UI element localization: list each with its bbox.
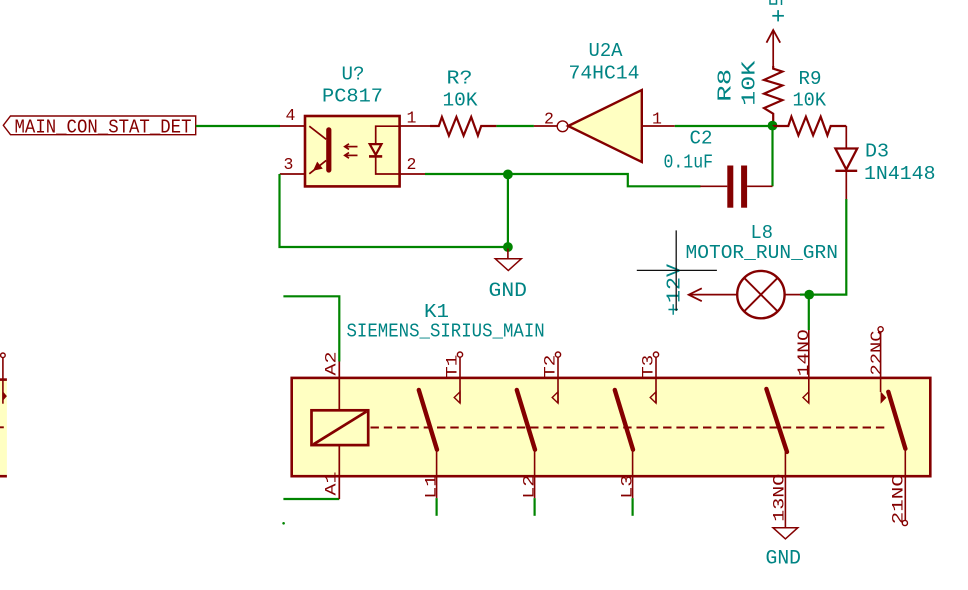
svg-text:1: 1 xyxy=(652,109,662,128)
svg-text:L2: L2 xyxy=(520,475,538,499)
svg-text:R9: R9 xyxy=(799,68,822,90)
K1 pin L1 xyxy=(422,450,440,499)
svg-text:0.1uF: 0.1uF xyxy=(664,151,714,173)
power symbol +12V arrow xyxy=(663,264,702,316)
svg-text:21NC: 21NC xyxy=(890,474,908,524)
stray wire dot xyxy=(282,522,285,525)
K1 blade 4 xyxy=(766,389,787,452)
U? pin 1 xyxy=(400,125,430,127)
svg-text:1: 1 xyxy=(407,108,417,127)
svg-text:SIEMENS_SIRIUS_MAIN: SIEMENS_SIRIUS_MAIN xyxy=(347,321,545,343)
K1 pin A2 xyxy=(322,352,340,410)
K1 pin L2 xyxy=(520,450,538,499)
wire stub below L3 xyxy=(631,498,633,516)
wire junction down to C2 right plate xyxy=(771,126,773,186)
svg-text:L8: L8 xyxy=(751,222,774,244)
svg-text:2: 2 xyxy=(544,110,554,129)
svg-text:U2A: U2A xyxy=(589,40,623,62)
svg-text:PC817: PC817 xyxy=(322,85,383,107)
svg-text:L3: L3 xyxy=(618,475,636,499)
wire R? to U2A xyxy=(496,125,534,127)
svg-text:10K: 10K xyxy=(738,60,760,105)
svg-text:A1: A1 xyxy=(322,472,340,496)
power symbol +B at top xyxy=(767,0,784,66)
svg-text:L1: L1 xyxy=(422,475,440,499)
junction on pin2 wire xyxy=(503,170,513,180)
diode D3 1N4148 xyxy=(835,126,935,199)
svg-text:GND: GND xyxy=(489,280,528,303)
K1 contact pole 2: pin T2 xyxy=(541,352,560,403)
ground symbol at 13NO xyxy=(766,528,802,571)
U? pin 2 xyxy=(400,173,426,175)
ground symbol near U? xyxy=(489,249,528,304)
anchor cross at +12V xyxy=(637,230,717,311)
K1 contact pole 1: pin T1 xyxy=(443,352,462,403)
op-amp U2A inverter 74HC14 xyxy=(534,90,675,162)
K1 blade 1 xyxy=(419,390,437,450)
capacitor C2 0.1uF xyxy=(664,127,773,207)
K1 blade 2 xyxy=(517,390,535,450)
svg-text:10K: 10K xyxy=(793,90,827,112)
wire U? pin2 to C2 xyxy=(425,174,701,186)
global label MAIN_CON_STAT_DET xyxy=(3,116,195,138)
svg-text:2: 2 xyxy=(407,155,417,174)
K1 pin A1 xyxy=(322,445,340,499)
junction at GND xyxy=(503,242,513,252)
svg-text:T2: T2 xyxy=(541,355,559,378)
U? pin 3 xyxy=(280,173,305,175)
relay K1 SIEMENS_SIRIUS_MAIN xyxy=(292,301,931,476)
K1 pin 21NC xyxy=(890,449,908,526)
wire U? pin3 return to GND junction xyxy=(280,174,508,247)
svg-text:22NC: 22NC xyxy=(868,331,886,376)
svg-text:1N4148: 1N4148 xyxy=(864,163,936,185)
wire junction down to GND xyxy=(507,174,509,247)
svg-text:14NO: 14NO xyxy=(795,329,813,376)
svg-text:U?: U? xyxy=(342,64,365,86)
wire D3 down to lamp junction xyxy=(809,199,846,295)
svg-text:MAIN_CON_STAT_DET: MAIN_CON_STAT_DET xyxy=(15,116,192,138)
K1 blade 5 (NC) xyxy=(888,392,905,449)
svg-text:+12V: +12V xyxy=(663,264,685,316)
svg-text:T1: T1 xyxy=(443,355,461,378)
svg-text:T3: T3 xyxy=(639,355,657,378)
wire stub to K1 pin A2 xyxy=(283,296,339,361)
svg-text:D3: D3 xyxy=(865,141,889,163)
wire stub below L1 xyxy=(436,498,438,516)
wire U2A output to junction xyxy=(675,125,773,127)
resistor R9 10K xyxy=(773,68,847,135)
K1 contact pole 5: pin 22NC xyxy=(868,327,886,404)
resistor R8 10K xyxy=(714,60,782,126)
wire label to U? pin 4 xyxy=(196,125,280,127)
K1 contact pole 4: pin 14NO xyxy=(795,329,813,403)
svg-text:74HC14: 74HC14 xyxy=(569,62,640,84)
svg-text:10K: 10K xyxy=(443,90,478,112)
K1 mechanical dashed link xyxy=(371,427,887,429)
lamp L8 MOTOR_RUN_GRN xyxy=(686,222,839,318)
svg-text:3: 3 xyxy=(284,155,294,174)
svg-text:A2: A2 xyxy=(322,352,340,376)
wire stub below L2 xyxy=(533,498,535,516)
svg-text:MOTOR_RUN_GRN: MOTOR_RUN_GRN xyxy=(686,242,839,264)
K1 coil xyxy=(312,410,369,445)
K1 blade 3 xyxy=(615,390,633,450)
junction at lamp xyxy=(804,290,814,300)
svg-text:13NO: 13NO xyxy=(770,474,788,522)
K1 pin 13NO xyxy=(770,452,788,528)
junction R8 / R9 / U2A output xyxy=(768,121,778,131)
svg-text:4: 4 xyxy=(286,106,296,125)
svg-text:C2: C2 xyxy=(690,127,713,149)
K1 pin L3 xyxy=(618,450,636,499)
wire stub from K1 pin A1 xyxy=(283,498,339,500)
svg-text:R?: R? xyxy=(447,68,473,90)
U? pin 4 xyxy=(280,125,305,127)
wire junction down to K1 pin 14NO xyxy=(808,295,810,330)
svg-text:R8: R8 xyxy=(714,69,736,102)
svg-text:GND: GND xyxy=(766,548,802,571)
K1 contact pole 3: pin T3 xyxy=(639,352,658,403)
wire lamp to junction xyxy=(800,294,809,296)
optocoupler U1 (U? PC817) xyxy=(305,116,400,186)
partial relay at left edge xyxy=(0,353,7,476)
resistor R1 (R? 10K) xyxy=(430,68,496,136)
